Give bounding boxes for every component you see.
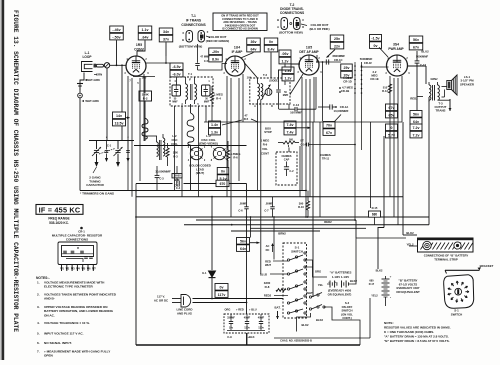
wire — [296, 322, 298, 332]
speaker LS-1 — [447, 81, 452, 90]
wire loop ground lead — [80, 73, 84, 94]
svg-text:T-1: T-1 — [188, 72, 192, 76]
svg-text:AC OR DC: AC OR DC — [154, 299, 169, 303]
svg-text:1U4: 1U4 — [234, 46, 240, 50]
svg-text:7.2v: 7.2v — [413, 126, 420, 130]
wire 1R5 plate to T-1 — [146, 62, 170, 64]
svg-text:A: A — [254, 105, 256, 108]
wire — [121, 65, 123, 141]
svg-text:8.4v: 8.4v — [268, 47, 275, 51]
trimmer capacitor — [106, 141, 108, 150]
svg-text:.06v: .06v — [282, 52, 289, 56]
wire — [355, 220, 357, 238]
svg-text:680: 680 — [372, 213, 378, 217]
voltage boxes -6.5v/-6.0v — [170, 63, 183, 70]
svg-text:IF = 455 KC: IF = 455 KC — [39, 205, 81, 214]
svg-text:ON AC.: ON AC. — [44, 313, 55, 317]
wire bus B- — [136, 196, 403, 198]
svg-text:BRN2: BRN2 — [278, 232, 286, 236]
svg-text:+: + — [390, 275, 392, 279]
svg-text:.05MF: .05MF — [265, 202, 273, 206]
svg-text:WHT-GRN: WHT-GRN — [86, 78, 99, 82]
svg-text:RED2: RED2 — [264, 294, 272, 298]
svg-text:TR-11: TR-11 — [322, 157, 330, 161]
svg-text:SWITCH: SWITCH — [451, 312, 462, 316]
svg-text:56v: 56v — [413, 113, 419, 117]
svg-text:YEL: YEL — [318, 283, 324, 287]
svg-text:RED2: RED2 — [410, 97, 418, 101]
svg-text:2.: 2. — [37, 293, 40, 297]
svg-text:25v: 25v — [334, 37, 340, 41]
coupling lead (curly) L-4 — [142, 118, 148, 139]
wire — [370, 122, 372, 208]
tube pin wires — [127, 76, 129, 191]
tube V2 1U4 IF amplifier — [225, 56, 245, 76]
svg-text:ORG: ORG — [225, 308, 231, 312]
wire — [374, 217, 376, 225]
svg-text:+ MEASUREMENT MADE WITH GA: + MEASUREMENT MADE WITH GANG FULLY — [44, 350, 111, 354]
multiple capacitor-resistor plate CR-1 diagram — [58, 242, 97, 265]
svg-text:MMF: MMF — [172, 101, 178, 103]
svg-text:8.9v: 8.9v — [212, 57, 219, 61]
wire — [165, 42, 167, 56]
svg-text:TERMINAL STRIP: TERMINAL STRIP — [434, 257, 458, 261]
wire — [273, 217, 275, 260]
svg-text:CR-1C: CR-1C — [334, 58, 343, 62]
wire — [409, 245, 417, 247]
svg-text:(BOTTOM VIEW): (BOTTOM VIEW) — [279, 31, 302, 35]
loop connector plug — [94, 64, 97, 68]
resistor R-16 670 box — [216, 180, 229, 186]
rectifier E-1 — [211, 197, 213, 270]
svg-text:OPEN: OPEN — [44, 354, 54, 358]
svg-text:MMF: MMF — [204, 101, 210, 103]
svg-text:C-9: C-9 — [227, 335, 232, 339]
line cord plug — [172, 298, 181, 300]
wire — [356, 237, 406, 239]
loop antenna L-1 — [82, 62, 93, 72]
wire — [274, 295, 288, 297]
svg-text:K = ONE THOUSAND (1000) OHM: K = ONE THOUSAND (1000) OHMS. — [384, 330, 434, 334]
coil (T-2 primary) — [258, 84, 260, 100]
svg-text:-.46v: -.46v — [112, 28, 120, 32]
svg-text:CAP: CAP — [284, 157, 290, 161]
wire — [403, 234, 417, 236]
wire T-2 secondary to 1U5 grid — [279, 64, 301, 78]
svg-text:-1.5v: -1.5v — [371, 37, 379, 41]
wire detector diode lead — [289, 74, 303, 96]
svg-text:10,000MMF: 10,000MMF — [155, 170, 171, 174]
svg-text:NOTES:-: NOTES:- — [36, 276, 50, 280]
svg-text:C-4: C-4 — [176, 186, 181, 190]
svg-text:CHIMES: CHIMES — [281, 154, 291, 158]
svg-text:10,000MMF: 10,000MMF — [334, 109, 349, 113]
svg-text:C-1: C-1 — [107, 144, 112, 148]
svg-text:CONT: CONT — [261, 151, 269, 155]
wire T-1 secondary feed — [197, 44, 199, 63]
wire — [315, 77, 317, 109]
wire — [305, 266, 313, 268]
IF frequency box — [36, 205, 83, 215]
wire — [402, 122, 404, 235]
resistor R-2 100K — [139, 91, 152, 101]
svg-text:IF AMP: IF AMP — [232, 50, 244, 54]
svg-text:"A" BATTERY DRAIN = 130 MA: "A" BATTERY DRAIN = 130 MA AT 2.8 VOLTS. — [384, 335, 449, 339]
oscillator coil L-2 — [157, 142, 159, 156]
svg-text:(DIODE): (DIODE) — [269, 80, 278, 83]
svg-text:(RED OR GREEN): (RED OR GREEN) — [206, 39, 230, 43]
voltage boxes -.46v/-.50v — [110, 26, 124, 33]
wire — [319, 122, 321, 217]
svg-text:CONV: CONV — [134, 48, 145, 52]
adjustable core (T-2) — [265, 89, 272, 96]
svg-text:0v: 0v — [221, 170, 225, 174]
svg-text:IS CONNECTED AS SHOWN: IS CONNECTED AS SHOWN — [222, 27, 258, 31]
wire — [352, 238, 356, 284]
svg-text:0v: 0v — [220, 286, 224, 290]
svg-text:0: 0 — [391, 126, 393, 130]
wire — [135, 191, 137, 346]
svg-text:OR EQUIVALENT: OR EQUIVALENT — [396, 290, 420, 294]
voltage boxes 25v/22v — [330, 35, 344, 42]
switch S-2 — [309, 296, 311, 298]
svg-text:PWR AMP: PWR AMP — [388, 47, 404, 51]
wire bus AVC — [80, 190, 306, 192]
wire plate to output transformer — [408, 65, 427, 67]
svg-text:-6.5v: -6.5v — [172, 65, 180, 69]
antenna jack — [77, 83, 83, 85]
svg-text:67v: 67v — [413, 45, 419, 49]
svg-text:.64v: .64v — [142, 35, 149, 39]
wire — [438, 99, 451, 101]
variable capacitor C-1A (RF) — [96, 141, 98, 150]
svg-text:1.3v: 1.3v — [211, 130, 218, 134]
svg-text:3.: 3. — [37, 305, 40, 309]
svg-text:SWITCH: SWITCH — [291, 249, 303, 253]
svg-text:36v: 36v — [251, 40, 257, 44]
wire T-1 to 1U4 grid — [198, 64, 228, 71]
svg-text:DC: DC — [266, 248, 270, 252]
svg-text:R-6: R-6 — [233, 156, 238, 160]
wire — [299, 146, 301, 197]
wire — [116, 40, 118, 65]
svg-text:CONNECTIONS: CONNECTIONS — [181, 23, 206, 27]
svg-text:CR-1E: CR-1E — [370, 77, 379, 81]
voltage boxes 56v/64v (filament) — [237, 238, 250, 245]
wire 1U5 plate — [319, 61, 341, 63]
tube V3 1U5 det-af amplifier — [299, 55, 319, 75]
svg-text:R-2: R-2 — [143, 97, 148, 101]
voltage boxes .06v/1.2v — [279, 50, 291, 57]
svg-text:C-7: C-7 — [264, 209, 269, 213]
wire — [284, 63, 286, 85]
svg-text:BLU2: BLU2 — [260, 273, 268, 277]
wire bus — [250, 227, 366, 229]
voltage boxes 1.4v/1.3v — [209, 121, 221, 128]
voltage boxes -1.5v/0v — [370, 35, 382, 42]
svg-text:YEL2: YEL2 — [371, 294, 378, 298]
voltage boxes 1.3v/1.2v — [282, 67, 294, 74]
voltage boxes 7.2v/7.2v — [410, 124, 422, 131]
capacitor 50MMF (T-1 primary) — [172, 85, 181, 96]
svg-text:BLU2: BLU2 — [421, 50, 429, 54]
svg-text:CONNECTIONS: CONNECTIONS — [66, 238, 88, 242]
wire — [316, 55, 318, 62]
svg-text:CHAS. NO. 63D8200283-B: CHAS. NO. 63D8200283-B — [280, 339, 312, 343]
IF transformer note box — [213, 13, 267, 31]
svg-text:(END VIEWS): (END VIEWS) — [199, 142, 218, 146]
svg-text:RED2: RED2 — [324, 220, 332, 224]
wire antenna to converter grid — [110, 64, 127, 66]
tube V1 1R5 converter — [126, 56, 146, 76]
svg-text:1.4v: 1.4v — [211, 123, 218, 127]
svg-text:1.1v: 1.1v — [142, 28, 149, 32]
switch S-1 pole 4 — [287, 302, 289, 304]
wire — [379, 47, 388, 57]
wire — [137, 40, 145, 56]
svg-text:37v: 37v — [163, 37, 169, 41]
wire antenna ground to bus — [79, 98, 81, 191]
multiple capacitor-resistor plate connection dots — [354, 65, 356, 67]
oscillator coil end view A — [190, 147, 202, 159]
svg-text:5000MMF: 5000MMF — [416, 55, 428, 59]
B battery terminal strip — [418, 238, 474, 252]
coupling lead (curly) T-1 return — [187, 113, 194, 145]
wire — [361, 62, 363, 150]
svg-text:4.: 4. — [37, 321, 40, 325]
coil (T-2 secondary) — [261, 84, 263, 100]
gang mechanical link — [93, 167, 97, 173]
svg-text:R-15: R-15 — [372, 206, 378, 210]
svg-text:OR EQUIVALENT): OR EQUIVALENT) — [328, 292, 352, 296]
wire — [385, 302, 387, 306]
wire — [250, 217, 252, 238]
svg-text:7.4v: 7.4v — [287, 123, 294, 127]
IF transformer T-1 — [170, 77, 213, 106]
svg-text:1R5: 1R5 — [136, 43, 142, 47]
wire S-2 return — [297, 313, 311, 322]
wire — [312, 122, 314, 297]
svg-text:-6.0v: -6.0v — [172, 72, 180, 76]
svg-text:+ RED: + RED — [236, 308, 244, 312]
svg-text:VOLTAGE TOLERANCE ± 10 %.: VOLTAGE TOLERANCE ± 10 %. — [44, 321, 90, 325]
diode transformer T-2 — [250, 78, 290, 104]
svg-text:1-1/2V 1-1/2V: 1-1/2V 1-1/2V — [332, 275, 349, 279]
coil (T-1 primary) — [186, 84, 188, 100]
wire — [354, 62, 356, 112]
wire — [211, 86, 213, 92]
voltage boxes 0v/117v — [215, 284, 228, 291]
switch S-1 wafer view — [444, 275, 474, 309]
svg-text:TRANS: TRANS — [436, 109, 446, 113]
wire — [428, 97, 430, 225]
svg-text:C-6: C-6 — [238, 209, 243, 213]
svg-text:NOTE:: NOTE: — [384, 321, 394, 325]
svg-text:C-13: C-13 — [293, 103, 300, 107]
svg-text:100 MMF: 100 MMF — [290, 111, 302, 115]
wire bus A+ — [136, 216, 429, 218]
wire — [176, 77, 178, 85]
capacitor C-11 10000MMF — [172, 174, 182, 178]
svg-text:64v: 64v — [251, 47, 257, 51]
svg-text:1.2v: 1.2v — [285, 76, 292, 80]
wire — [126, 117, 130, 119]
svg-text:"B" BATTERY DRAIN = 8.5 MA: "B" BATTERY DRAIN = 8.5 MA AT 67.5 VOLTS… — [384, 339, 450, 343]
wire — [144, 101, 146, 141]
svg-text:(BOTTOM VIEW): (BOTTOM VIEW) — [179, 45, 202, 49]
svg-text:56v: 56v — [240, 240, 246, 244]
svg-text:14v: 14v — [116, 114, 122, 118]
voltage boxes -20v/8.9v — [209, 48, 223, 55]
wire 1U4 plate to T-2 — [245, 64, 258, 79]
svg-text:CONNECTIONS: CONNECTIONS — [280, 11, 305, 15]
voltage boxes 0/5.7v — [386, 124, 398, 131]
svg-text:AND B-: AND B- — [44, 297, 55, 301]
voltage boxes 0v/8.4v — [264, 38, 278, 45]
svg-text:BRACKET: BRACKET — [480, 264, 494, 268]
wire line cord — [193, 298, 286, 300]
svg-text:CR-1F: CR-1F — [364, 61, 373, 65]
svg-text:C-3: C-3 — [159, 177, 164, 181]
voltage boxes 1.1v/.64v — [138, 26, 152, 33]
svg-text:64v: 64v — [413, 120, 419, 124]
svg-text:CR-1B: CR-1B — [341, 89, 350, 93]
svg-text:DET AF AMP: DET AF AMP — [299, 50, 319, 54]
svg-text:BLK2: BLK2 — [376, 269, 383, 273]
svg-text:VOL: VOL — [262, 147, 268, 151]
svg-text:D: D — [271, 105, 273, 108]
svg-text:+BLK: +BLK — [247, 335, 254, 339]
wire osc grid link — [144, 135, 157, 137]
svg-text:MMF: MMF — [283, 94, 289, 97]
CR-1 plate pins — [61, 265, 63, 272]
svg-text:3S4: 3S4 — [393, 43, 399, 47]
switch S-1 pole 3 — [287, 288, 289, 290]
svg-text:* TRIMMERS ON GANG: * TRIMMERS ON GANG — [80, 192, 115, 196]
capacitor 50MMF (T-1 secondary) — [202, 85, 211, 96]
svg-text:T-2: T-2 — [263, 73, 267, 77]
svg-text:535-1620 KC.: 535-1620 KC. — [49, 221, 69, 225]
wire — [369, 298, 371, 338]
svg-text:5.: 5. — [37, 332, 40, 336]
coil (T-1 secondary) — [195, 84, 197, 100]
switch S-1 box — [283, 243, 307, 318]
wire switch to A battery — [305, 260, 327, 277]
svg-text:-.50v: -.50v — [112, 35, 120, 39]
svg-text:-: - — [390, 295, 391, 299]
svg-text:1U5: 1U5 — [306, 46, 312, 50]
svg-text:R-17: R-17 — [369, 283, 375, 286]
svg-text:NO SIGNAL INPUT.: NO SIGNAL INPUT. — [44, 341, 72, 345]
capacitor 50MMF (T-2) — [278, 78, 280, 89]
svg-text:R-10: R-10 — [298, 205, 304, 209]
svg-text:64v: 64v — [240, 247, 246, 251]
voltage boxes 67v/65v — [386, 104, 398, 111]
trimmer capacitor — [127, 141, 129, 150]
svg-text:500: 500 — [289, 139, 294, 142]
svg-text:34v: 34v — [163, 30, 169, 34]
svg-text:INPUT VOLTAGE 117 V AC.: INPUT VOLTAGE 117 V AC. — [44, 332, 84, 336]
chimes capacitor C-2 box — [276, 152, 297, 185]
potentiometer R-9 — [283, 141, 295, 144]
svg-text:FIGURE 13. SCHEMATIC DIAGRAM: FIGURE 13. SCHEMATIC DIAGRAM OF CHASSIS … — [12, 10, 19, 332]
svg-text:(BLU OR PINK): (BLU OR PINK) — [309, 27, 329, 31]
svg-text:T-1: T-1 — [191, 14, 196, 18]
wire — [274, 337, 370, 339]
svg-text:C-2: C-2 — [289, 169, 294, 173]
svg-text:0v: 0v — [374, 44, 378, 48]
wire — [417, 96, 423, 98]
svg-text:+ BLU: + BLU — [249, 308, 257, 312]
svg-text:ORG: ORG — [315, 270, 321, 274]
svg-text:A: A — [277, 25, 279, 29]
svg-text:E-1: E-1 — [202, 271, 207, 275]
svg-text:AC: AC — [266, 244, 270, 248]
tuning arrow (T-2) — [263, 85, 271, 98]
svg-text:7.4v: 7.4v — [287, 130, 294, 134]
voltage boxes 25v/20v — [341, 64, 353, 71]
svg-text:WHT-GRN: WHT-GRN — [85, 99, 98, 103]
voltage boxes 7.4v/7.4v — [284, 121, 296, 128]
resistor R-15 680 box — [369, 211, 381, 217]
wire — [270, 52, 272, 78]
svg-text:R-4: R-4 — [216, 97, 221, 101]
tube V4 3S4 power amplifier — [387, 55, 408, 76]
wire screen row y=122 — [204, 121, 402, 123]
voltage boxes 34v/37v — [159, 28, 173, 35]
svg-text:BLK2: BLK2 — [316, 318, 324, 322]
voltage boxes 14v/13.5v — [113, 112, 126, 119]
wire bus filament — [231, 230, 320, 232]
svg-text:67v: 67v — [326, 131, 332, 135]
svg-text:56v: 56v — [413, 38, 419, 42]
wire — [273, 260, 288, 262]
svg-text:13.5v: 13.5v — [115, 121, 124, 125]
svg-text:CHIMES: CHIMES — [320, 153, 331, 157]
svg-text:70v: 70v — [326, 124, 332, 128]
svg-text:D: D — [302, 25, 304, 29]
svg-text:1.2v: 1.2v — [282, 59, 289, 63]
svg-text:390: 390 — [299, 202, 304, 206]
output transformer T-3 — [429, 85, 431, 100]
voltage boxes 56v/64v (output) — [410, 111, 422, 118]
tuning gang top bar — [89, 140, 134, 142]
variable capacitor C-1B (osc) — [117, 141, 119, 150]
capacitor C-4 — [136, 183, 173, 185]
svg-text:IF TRANS: IF TRANS — [186, 19, 202, 23]
svg-text:R-8: R-8 — [265, 285, 270, 289]
svg-text:CR-1D: CR-1D — [343, 80, 352, 84]
voltage boxes 70v/67v — [323, 122, 335, 129]
wire — [246, 217, 248, 345]
svg-text:ELECTRONIC TYPE VOLTMETER: ELECTRONIC TYPE VOLTMETER — [44, 285, 94, 289]
wire — [354, 112, 356, 220]
wire 3S4 grid — [362, 66, 389, 68]
wire bus B+ — [184, 224, 429, 226]
svg-text:R-3: R-3 — [173, 154, 178, 158]
svg-text:.05MF: .05MF — [239, 202, 247, 206]
oscillator coil end view B — [213, 147, 225, 159]
wire — [240, 53, 254, 59]
svg-text:GRN2: GRN2 — [431, 78, 439, 81]
wire bottom return — [136, 344, 360, 346]
wire — [229, 183, 247, 185]
wire — [327, 50, 336, 58]
wire heater — [133, 76, 155, 78]
voltage boxes 36v/64v — [247, 38, 261, 45]
wire volume to chimes — [309, 144, 355, 146]
wire — [106, 68, 108, 141]
